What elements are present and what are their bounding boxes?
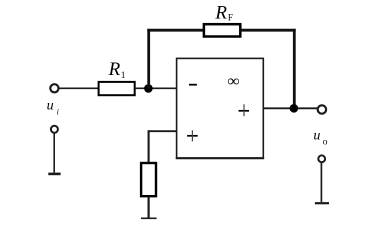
ground (below R2)	[141, 217, 157, 219]
wire: R1 to op-amp inverting input (through node A)	[135, 87, 177, 89]
label R1	[108, 59, 126, 80]
op-amp minus sign (inverting input)	[189, 84, 197, 86]
svg-text:i: i	[57, 108, 59, 117]
wire: R2 to ground	[148, 196, 150, 217]
wire: lower-right terminal to ground	[320, 163, 322, 202]
svg-text:∞: ∞	[227, 73, 239, 90]
wire: feedback top horizontal (right of RF)	[240, 29, 295, 32]
op-amp plus sign (output polarity)	[239, 104, 250, 116]
wire: op-amp output to output terminal	[263, 107, 317, 109]
svg-text:R: R	[214, 3, 227, 24]
wire: corner down to R2	[148, 130, 150, 163]
svg-text:F: F	[228, 12, 233, 22]
output terminal u_o (open circle)	[318, 105, 326, 113]
label RF	[214, 3, 233, 24]
wire: feedback top horizontal (left of RF)	[147, 29, 205, 32]
ground (lower-left)	[48, 173, 60, 176]
resistor RF	[204, 24, 240, 36]
wire: lower-left terminal to ground	[53, 133, 55, 173]
wire: feedback left vertical leg	[147, 29, 150, 88]
label u_o	[313, 128, 327, 147]
lower-right reference terminal (open circle)	[318, 155, 325, 162]
wire: input terminal to R1	[59, 87, 99, 89]
op-amp plus sign (non-inverting input)	[187, 130, 198, 141]
svg-text:u: u	[47, 99, 54, 114]
wire: op-amp non-inverting input to corner	[148, 130, 177, 132]
node A (junction dot at inverting input)	[144, 84, 153, 93]
op-amp U1 (rectangle body)	[176, 58, 264, 158]
svg-text:o: o	[323, 138, 328, 148]
resistor R2 (vertical, non-inverting to ground)	[141, 163, 156, 196]
svg-text:R: R	[108, 59, 121, 80]
lower-left reference terminal (open circle)	[51, 126, 58, 133]
label u_i	[47, 99, 59, 117]
svg-text:u: u	[313, 128, 320, 143]
resistor R1	[99, 82, 135, 95]
svg-text:1: 1	[121, 70, 126, 80]
output node (junction dot)	[290, 104, 299, 113]
wire: feedback right vertical leg	[293, 29, 296, 108]
input terminal u_i (open circle)	[50, 84, 58, 92]
ground (lower-right)	[315, 202, 329, 204]
